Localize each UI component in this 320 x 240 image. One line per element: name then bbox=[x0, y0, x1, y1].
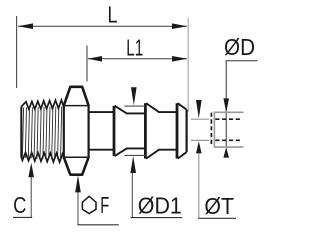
svg-text:L1: L1 bbox=[126, 35, 143, 61]
thread flank lines bbox=[22, 107, 61, 160]
barb 2 bbox=[145, 103, 159, 158]
hose bore dashed bottom bbox=[215, 139, 241, 141]
hex chamfer line top bbox=[64, 105, 89, 107]
valley 2 cylinder bbox=[158, 111, 176, 113]
hose bore dashed top bbox=[215, 118, 241, 120]
wire: extension line hex right (L1 datum) bbox=[86, 46, 88, 82]
wire: OT leader bbox=[198, 153, 200, 218]
node F hexagon symbol (width across flats) bbox=[82, 196, 96, 213]
svg-text:L: L bbox=[108, 1, 118, 27]
svg-text:ØD1: ØD1 bbox=[138, 192, 182, 218]
svg-text:ØT: ØT bbox=[204, 193, 234, 219]
wire: extension line left (L datum) bbox=[16, 16, 18, 88]
svg-text:C: C bbox=[13, 192, 26, 218]
hose outline (gray) bbox=[214, 112, 243, 147]
hex bottom cap bbox=[64, 157, 89, 175]
svg-text:ØD: ØD bbox=[224, 34, 255, 60]
wire: OT arrows bbox=[196, 100, 202, 153]
wire: OD leader elbow + vertical bbox=[226, 60, 258, 62]
neck cylinder lines bbox=[89, 111, 115, 113]
barb 3 bbox=[177, 103, 187, 158]
wire: dimension line L1 bbox=[88, 58, 187, 60]
wire: F leader arrow bbox=[75, 175, 81, 192]
wire: extension line right shared (L, L1 datum at tube end) bbox=[187, 18, 189, 112]
node D1 extension line bottom bbox=[124, 154, 145, 156]
svg-text:F: F bbox=[100, 192, 109, 218]
thread bottom crest zigzag bbox=[21, 152, 64, 162]
thread end face bbox=[20, 107, 22, 158]
wire: dimension line L bbox=[18, 25, 187, 27]
stem end face bbox=[186, 110, 188, 153]
wire: dimension OD1 arrows bbox=[130, 87, 136, 173]
hose bore end dashed vertical bbox=[210, 113, 212, 147]
hex side edges bbox=[63, 105, 65, 158]
barb 1 bbox=[114, 106, 127, 156]
wire: OD1 leader bbox=[131, 173, 133, 218]
hex top cap bbox=[64, 87, 89, 106]
valley 1 cylinder bbox=[126, 112, 145, 114]
hex chamfer line bottom bbox=[64, 156, 89, 158]
hex nut body bbox=[64, 87, 89, 175]
thread top crest zigzag bbox=[21, 100, 64, 109]
wire: C leader arrow bbox=[28, 163, 34, 178]
node T extension line top bbox=[191, 118, 209, 120]
node T extension line bottom bbox=[191, 139, 209, 141]
node D1 extension line top bbox=[124, 105, 145, 107]
